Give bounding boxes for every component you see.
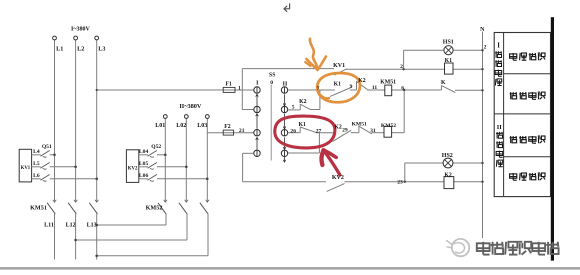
svg-text:11: 11 [372,85,377,91]
svg-text:KV2: KV2 [128,166,138,171]
svg-text:L04: L04 [139,149,149,155]
svg-text:Q51: Q51 [42,144,52,150]
svg-text:L6: L6 [33,173,40,179]
svg-text:2: 2 [400,64,403,70]
svg-text:L03: L03 [197,123,207,129]
svg-text:L01: L01 [155,123,165,129]
svg-text:L12: L12 [66,223,76,229]
svg-text:F2: F2 [224,124,231,130]
svg-text:I: I [497,43,500,50]
svg-text:K2: K2 [444,172,452,178]
svg-text:K2: K2 [299,99,307,105]
svg-text:L3: L3 [98,46,105,53]
svg-text:K2: K2 [358,78,366,84]
svg-text:27: 27 [316,128,322,134]
svg-text:KV1: KV1 [21,166,31,171]
svg-text:K1: K1 [445,58,453,64]
svg-text:L4: L4 [33,149,40,155]
svg-text:K2: K2 [334,125,342,131]
svg-text:1: 1 [238,85,241,91]
svg-text:26: 26 [290,128,296,134]
svg-text:L13: L13 [87,223,97,229]
svg-text:29: 29 [342,127,348,133]
svg-text:L1: L1 [56,46,63,53]
svg-text:31: 31 [370,128,376,134]
svg-text:0: 0 [270,80,273,86]
svg-text:5: 5 [292,105,295,111]
svg-text:II~380V: II~380V [179,103,202,110]
svg-text:L02: L02 [176,123,186,129]
svg-text:K: K [441,80,446,86]
svg-text:KV1: KV1 [333,63,345,69]
svg-text:21: 21 [239,128,245,134]
svg-text:KV2: KV2 [332,175,344,181]
svg-text:Q52: Q52 [151,144,161,150]
svg-text:HS1: HS1 [443,39,454,45]
svg-text:KM51: KM51 [30,204,47,211]
svg-text:K1: K1 [334,82,342,88]
svg-text:6: 6 [401,85,404,91]
svg-text:SS: SS [269,72,275,78]
svg-text:7: 7 [317,86,320,92]
svg-text:N: N [480,27,485,33]
svg-text:23: 23 [397,179,403,185]
svg-text:K1: K1 [298,122,306,128]
svg-text:I~380V: I~380V [71,27,90,33]
svg-text:L11: L11 [44,223,54,229]
svg-text:L5: L5 [33,161,40,167]
svg-text:L2: L2 [77,46,84,53]
svg-text:HS2: HS2 [442,153,453,159]
svg-text:II: II [497,124,502,131]
svg-text:L06: L06 [139,173,149,179]
svg-text:KM51: KM51 [352,121,367,127]
svg-text:9: 9 [350,84,353,90]
svg-text:L05: L05 [139,161,149,167]
svg-text:2: 2 [484,45,487,51]
svg-text:KM52: KM52 [146,205,163,212]
svg-text:F1: F1 [225,82,232,88]
svg-text:KM52: KM52 [381,123,396,129]
svg-text:KM51: KM51 [380,79,396,85]
